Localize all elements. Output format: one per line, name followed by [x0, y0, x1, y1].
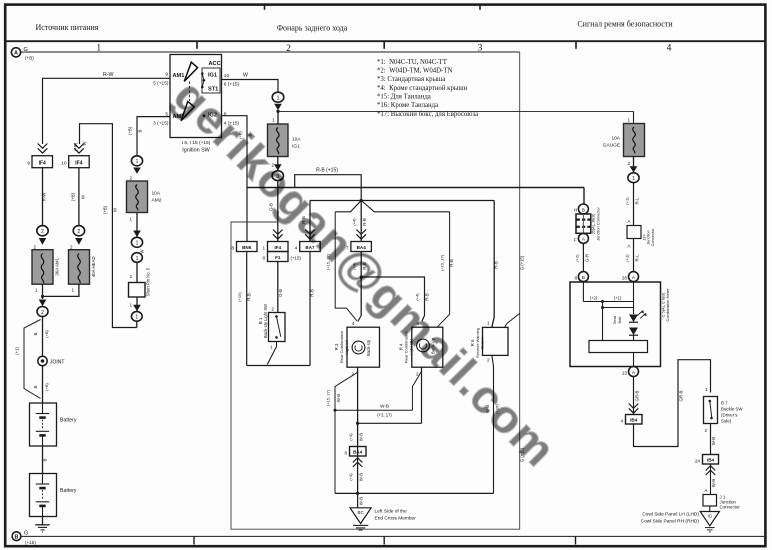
svg-text:IG: IG [708, 514, 712, 519]
svg-text:End Cross Member: End Cross Member [375, 516, 417, 522]
svg-text:(+1): (+1) [15, 347, 20, 355]
svg-text:W: W [81, 194, 86, 199]
svg-text:G-B: G-B [278, 289, 283, 297]
diode [629, 328, 638, 336]
svg-text:IF4: IF4 [75, 160, 82, 166]
svg-text:GR-B: GR-B [679, 390, 684, 401]
svg-text:8: 8 [231, 246, 234, 251]
wire to BA4 [360, 201, 362, 242]
svg-text:W-B: W-B [711, 437, 716, 446]
svg-text:(Driver’s: (Driver’s [721, 413, 738, 418]
wire BA7 down [309, 252, 311, 366]
wires below fuses merging [43, 284, 79, 299]
node JOINT [38, 356, 47, 365]
svg-text:IG1: IG1 [292, 144, 300, 150]
wire B to battery [42, 317, 44, 404]
R-B bus wire [295, 175, 362, 201]
svg-text:2: 2 [33, 245, 36, 250]
svg-text:1: 1 [277, 96, 280, 102]
section boundary back-up light circuit [231, 52, 520, 529]
svg-text:R-L: R-L [635, 197, 640, 205]
svg-text:3 (+15): 3 (+15) [153, 121, 169, 127]
svg-text:1: 1 [129, 217, 132, 222]
svg-text:1: 1 [129, 303, 132, 308]
reverse warning buzzer R6 [483, 327, 509, 355]
SW output diagonal [267, 342, 276, 365]
svg-text:8: 8 [262, 256, 265, 261]
svg-text:2: 2 [704, 428, 707, 433]
svg-text:6 (+15): 6 (+15) [224, 81, 240, 87]
svg-text:13: 13 [622, 371, 628, 376]
svg-text:1: 1 [136, 241, 139, 247]
bottom rail tick [193, 536, 195, 544]
svg-text:1: 1 [632, 176, 635, 182]
column numbers [96, 44, 671, 55]
svg-text:1: 1 [627, 118, 630, 123]
ground battery [35, 517, 49, 533]
svg-text:2: 2 [271, 307, 274, 312]
svg-text:10A: 10A [292, 137, 301, 143]
chevrons above BA7 BA4 and IF4 [273, 230, 366, 240]
svg-text:A: A [632, 275, 636, 281]
svg-text:G-R: G-R [585, 254, 590, 262]
svg-text:2: 2 [129, 274, 132, 279]
connector circle 2 col1 [37, 226, 48, 236]
fuse block connector IF4 no.9 [32, 156, 53, 168]
ground end cross member [357, 493, 359, 507]
svg-text:Connector: Connector [720, 505, 741, 510]
svg-text:10A: 10A [152, 191, 161, 197]
svg-text:1: 1 [270, 345, 273, 350]
svg-text:*15: Для Таиланда: *15: Для Таиланда [377, 93, 431, 100]
wire loop to buckle SW [634, 360, 711, 447]
svg-text:1: 1 [705, 387, 708, 392]
wire to GAUGE fuse [633, 111, 635, 123]
svg-text:IB4: IB4 [630, 418, 638, 423]
wire R-L down [633, 183, 635, 226]
svg-text:R-B: R-B [310, 289, 315, 297]
key wedge AM2 [181, 102, 194, 121]
svg-text:AM2: AM2 [152, 198, 162, 204]
connector IB4 [626, 415, 643, 425]
wire BN6 down [246, 252, 248, 366]
svg-text:GAUGE: GAUGE [603, 143, 620, 149]
svg-text:4: 4 [620, 419, 623, 424]
junction connector J1 [703, 495, 717, 507]
svg-text:4: 4 [295, 246, 298, 251]
short pin No.5 [129, 283, 146, 298]
svg-text:Buckle SW: Buckle SW [721, 407, 743, 412]
notes list [377, 59, 478, 118]
wire F1 down to back-up SW [277, 262, 279, 313]
svg-text:A: A [632, 370, 636, 376]
svg-text:W-B: W-B [380, 403, 389, 408]
svg-text:Buzzer: Buzzer [479, 336, 484, 349]
bottom rail tick [575, 536, 577, 544]
contact box ACC/IG1/ST1 [202, 68, 220, 93]
svg-text:*3: Стандартная крыша: *3: Стандартная крыша [377, 76, 445, 83]
svg-text:B: B [33, 385, 38, 388]
fuse block connector IF4 no.10 [69, 156, 90, 168]
svg-text:(+1): (+1) [625, 254, 630, 262]
svg-text:W-B: W-B [358, 433, 363, 442]
svg-text:2: 2 [627, 161, 630, 166]
svg-text:*16: Кроме Таиланда: *16: Кроме Таиланда [377, 102, 438, 109]
svg-text:Battery: Battery [60, 488, 77, 494]
svg-text:2: 2 [41, 310, 44, 316]
svg-text:2: 2 [78, 229, 81, 235]
svg-text:9: 9 [165, 71, 168, 77]
svg-text:B: B [33, 332, 38, 335]
ignition switch U ignition SW [170, 55, 222, 138]
svg-text:BC: BC [358, 510, 364, 515]
svg-text:4: 4 [352, 321, 355, 326]
svg-text:H: H [574, 208, 577, 213]
LH variant jog [335, 372, 358, 494]
wire W branch over to short-pin column [80, 124, 137, 328]
connector BA7 [300, 242, 321, 252]
svg-text:2: 2 [129, 176, 132, 181]
svg-text:A: A [582, 237, 586, 243]
svg-text:(+B): (+B) [103, 205, 108, 214]
svg-text:A: A [14, 51, 18, 57]
svg-text:Cowl Side Panel LH (LHD): Cowl Side Panel LH (LHD) [642, 512, 699, 518]
buzzer feed G from IG [505, 313, 520, 327]
svg-text:R-B: R-B [494, 261, 499, 269]
buzzer ground W-B [492, 355, 494, 493]
svg-text:Belt: Belt [617, 316, 622, 324]
svg-text:1: 1 [136, 256, 139, 262]
svg-text:24: 24 [695, 459, 701, 464]
node wire to GAUGE fuse [278, 110, 634, 112]
connector circle 1 gauge [628, 173, 639, 183]
svg-text:8: 8 [574, 276, 577, 281]
svg-text:(+15): (+15) [237, 292, 242, 302]
svg-text:1: 1 [487, 321, 490, 326]
svg-text:Back-Up Light SW: Back-Up Light SW [263, 304, 268, 338]
combination meter C5 C6 [570, 282, 661, 367]
battery 2 [30, 474, 57, 517]
svg-text:IB4: IB4 [707, 458, 715, 463]
W-B variant bus [335, 409, 412, 411]
svg-text:Side): Side) [721, 419, 732, 424]
svg-text:2: 2 [70, 245, 73, 250]
svg-text:(+2): (+2) [590, 295, 598, 300]
RH variant jog [412, 372, 421, 411]
wire W-B buckle [710, 424, 712, 455]
connector circle 2 col2 [73, 226, 84, 236]
svg-text:30A AM1: 30A AM1 [55, 257, 60, 275]
separator tick [196, 41, 198, 49]
connector IB4 lower [703, 455, 719, 465]
svg-text:R-B (+15): R-B (+15) [316, 168, 338, 174]
svg-text:A: A [704, 488, 708, 493]
meter pin 13 [629, 367, 639, 377]
svg-text:(+4): (+4) [348, 473, 353, 481]
top border tick [479, 4, 481, 10]
svg-text:JOINT: JOINT [50, 359, 64, 365]
connector circle 1 below IG1 wire W [272, 92, 284, 102]
svg-text:A: A [627, 219, 631, 224]
svg-text:B: B [43, 458, 48, 461]
svg-text:B: B [15, 535, 19, 541]
branch split [335, 201, 449, 212]
node B rail [12, 531, 765, 545]
buzzer feed R-B [492, 201, 494, 328]
wire W from IG1 [222, 80, 279, 93]
dashed link [189, 82, 191, 102]
svg-text:40A HEAD: 40A HEAD [91, 256, 96, 277]
svg-text:R-W: R-W [42, 192, 47, 202]
svg-text:Сигнал ремня безопасности: Сигнал ремня безопасности [577, 20, 673, 29]
fuse 10A IG1 [268, 124, 302, 157]
wire W down to connector 2 [78, 168, 80, 226]
bus to RH lamp [361, 277, 424, 322]
IC box [589, 341, 648, 353]
junction connector J37 [627, 226, 641, 239]
connector circle 3 [272, 171, 283, 181]
meter pin A circle [629, 272, 639, 282]
wire G-B down to fuse block [277, 181, 279, 242]
svg-text:(+B): (+B) [71, 192, 76, 201]
connector circle 2 merged [37, 307, 48, 317]
svg-text:Battery: Battery [60, 418, 77, 424]
separator tick [575, 41, 577, 49]
svg-text:28: 28 [622, 276, 628, 281]
svg-text:*2: W04D-TM, W04D-TN: *2: W04D-TM, W04D-TN [377, 68, 452, 75]
svg-text:(+B): (+B) [73, 142, 78, 151]
svg-text:Источник питания: Источник питания [36, 23, 99, 32]
svg-text:G: G [24, 531, 28, 537]
key wedge AM1 [184, 62, 197, 81]
wire BA4 to lamps [360, 252, 362, 316]
svg-text:4: 4 [667, 44, 672, 54]
connector circles short pin chain [131, 237, 142, 247]
svg-text:(+B): (+B) [44, 383, 49, 391]
connector chevrons above IF4 row [38, 144, 84, 154]
svg-text:B: B [138, 129, 143, 132]
J5 J6 junction connector [583, 188, 585, 205]
svg-text:10A: 10A [611, 136, 620, 142]
wire R-W from AM1 [43, 78, 279, 327]
svg-text:(+15, 17): (+15, 17) [325, 389, 330, 406]
svg-text:Back-Up: Back-Up [366, 339, 371, 356]
svg-text:W: W [243, 73, 248, 79]
svg-text:1: 1 [272, 118, 275, 123]
LED seat belt [629, 315, 638, 323]
separator tick [383, 41, 385, 49]
svg-text:1: 1 [35, 288, 38, 293]
bottom rail tick [383, 536, 385, 544]
svg-text:A: A [627, 244, 631, 249]
svg-text:*17: Высокий бокс, для Евросою: *17: Высокий бокс, для Евросоюза [377, 111, 478, 118]
svg-text:*4: Кроме стандартной крыши: *4: Кроме стандартной крыши [377, 85, 468, 92]
svg-text:Фонарь заднего хода: Фонарь заднего хода [277, 24, 348, 33]
svg-text:*1: N04C-TU, N04C-TT: *1: N04C-TU, N04C-TT [377, 59, 448, 66]
svg-text:ACC: ACC [209, 61, 221, 67]
W-B bus lamps [358, 422, 422, 424]
connector circle 1 below AM2 [131, 156, 142, 166]
battery 1 [30, 403, 57, 446]
svg-text:10: 10 [61, 161, 67, 167]
branch +15,17 right [438, 212, 450, 327]
svg-text:IF4: IF4 [39, 160, 46, 166]
svg-text:(+15): (+15) [25, 540, 36, 545]
rear combination light LH [347, 327, 380, 367]
svg-text:2: 2 [41, 229, 44, 235]
svg-text:R-B: R-B [247, 293, 252, 301]
svg-text:Short Pin No. 5: Short Pin No. 5 [146, 267, 151, 296]
svg-text:1: 1 [135, 315, 138, 321]
top border tick [264, 4, 266, 10]
wire GR-B down [633, 377, 635, 415]
svg-text:10: 10 [224, 73, 230, 79]
svg-text:(+B): (+B) [44, 330, 49, 338]
svg-text:(+B): (+B) [128, 126, 133, 135]
svg-text:(+15, 17): (+15, 17) [440, 254, 445, 271]
svg-text:1: 1 [136, 159, 139, 165]
svg-text:9: 9 [27, 161, 30, 167]
contact dots [201, 72, 205, 117]
svg-text:1: 1 [71, 288, 74, 293]
svg-text:AM1: AM1 [173, 73, 185, 79]
fuse 40A HEAD [69, 250, 97, 285]
svg-text:Cowl Side Panel RH (RHD): Cowl Side Panel RH (RHD) [641, 519, 700, 525]
svg-text:BN6: BN6 [242, 245, 252, 250]
header separator [4, 40, 766, 42]
svg-text:Left Side of the: Left Side of the [375, 509, 408, 515]
fuse 10A AM2 [127, 181, 162, 213]
svg-text:(+3, 17): (+3, 17) [377, 412, 392, 417]
W-B ground bus [335, 492, 494, 494]
svg-text:B: B [582, 207, 585, 213]
section titles [36, 20, 674, 33]
svg-text:(+4): (+4) [348, 433, 353, 441]
branch +15,17 left [335, 212, 357, 321]
svg-text:W-B: W-B [336, 394, 341, 403]
svg-text:W: W [82, 141, 87, 145]
distribution wire R-B [310, 200, 494, 202]
ground cowl side [709, 506, 711, 512]
main feed wire to J5 [247, 187, 584, 189]
svg-text:W-B: W-B [358, 497, 363, 506]
svg-text:(+B): (+B) [25, 56, 34, 61]
wire to BA7 [309, 201, 311, 242]
svg-text:F: F [574, 238, 577, 243]
wire B from AM2 [137, 117, 170, 156]
svg-text:Combination Meter: Combination Meter [665, 288, 670, 322]
svg-text:8: 8 [344, 451, 347, 456]
wire between batteries [42, 446, 44, 474]
bus BN6-BA7 [247, 365, 310, 367]
svg-text:R-W: R-W [103, 72, 113, 78]
rear combination light RH [412, 327, 443, 367]
svg-text:B 7: B 7 [721, 401, 728, 406]
svg-text:(+1): (+1) [625, 197, 630, 205]
connector BA4 lower [350, 447, 367, 457]
wire B from IG2 down to BN6 [222, 116, 248, 242]
svg-text:(+15): (+15) [291, 256, 302, 261]
svg-text:F1: F1 [275, 255, 281, 260]
buckle SW B7 [704, 397, 718, 424]
svg-text:GR-B: GR-B [635, 390, 640, 401]
svg-text:Connector: Connector [650, 228, 655, 247]
fuse 30A AM1 [32, 250, 60, 285]
svg-text:R-B: R-B [449, 259, 454, 267]
svg-text:Junction Connector: Junction Connector [595, 207, 600, 241]
svg-text:R-L: R-L [635, 254, 640, 262]
wire R-W down to connector 2 [42, 168, 44, 226]
connector IF4 / F1 fuse [268, 242, 289, 252]
svg-text:W-B: W-B [358, 473, 363, 482]
svg-text:(+2): (+2) [575, 254, 580, 262]
svg-text:Light LH: Light LH [344, 339, 349, 354]
variant bracket (+1) [24, 320, 41, 399]
svg-text:IF4: IF4 [274, 245, 281, 250]
svg-text:(+1): (+1) [614, 295, 622, 300]
svg-text:G (+15): G (+15) [520, 255, 525, 270]
fuse 10A GAUGE [603, 124, 645, 157]
svg-text:gerikogan@gmail.com: gerikogan@gmail.com [164, 70, 567, 477]
svg-text:BA4: BA4 [353, 450, 363, 455]
svg-text:5 (+15): 5 (+15) [153, 81, 169, 87]
svg-text:W: W [113, 207, 118, 212]
svg-text:R-B: R-B [362, 218, 367, 226]
back-up light switch B1 [269, 313, 286, 342]
connector BN6 [237, 242, 258, 252]
svg-text:W-B: W-B [711, 479, 716, 488]
node A rail [11, 47, 519, 61]
svg-text:1: 1 [262, 246, 265, 251]
svg-text:B: B [582, 275, 585, 281]
connector BA4 [351, 242, 372, 252]
